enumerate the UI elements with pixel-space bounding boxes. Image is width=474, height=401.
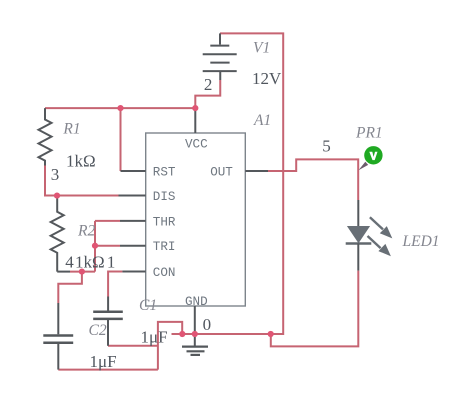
junction dot at VCC — [192, 105, 198, 111]
battery V1 — [203, 33, 237, 80]
svg-text:PR1: PR1 — [355, 125, 383, 142]
node 4 — [65, 253, 74, 272]
svg-text:4: 4 — [65, 253, 74, 272]
svg-text:LED1: LED1 — [402, 233, 440, 250]
svg-text:3: 3 — [51, 165, 60, 184]
value 1kΩ (R2) — [75, 253, 105, 272]
wire: C2 bottom return — [58, 369, 158, 371]
junction dot at RST drop — [117, 105, 123, 111]
pin name RST — [153, 166, 176, 180]
LED LED1 — [346, 200, 372, 271]
wire: RST drop from rail — [120, 108, 122, 171]
pin stub VCC — [194, 108, 196, 133]
capacitor C1 — [93, 297, 123, 346]
value 1μF (C2) — [90, 352, 117, 371]
svg-text:GND: GND — [185, 295, 208, 309]
label PR1 — [355, 125, 383, 142]
node 3 — [51, 165, 60, 184]
node 5 — [322, 136, 331, 155]
svg-text:DIS: DIS — [153, 190, 176, 204]
op-amp/timer U1 (A1 555) box — [146, 133, 246, 306]
wire: LED bottom return to ground — [271, 271, 359, 347]
wire: R1 bottom to DIS pin — [45, 166, 119, 196]
svg-text:R1: R1 — [62, 121, 80, 138]
wire: R2 bottom horizontal — [70, 271, 95, 273]
wire: THR pin horizontal — [95, 220, 120, 222]
wire: battery minus jog to node 2 — [195, 80, 220, 108]
pin name GND — [185, 295, 208, 309]
pin name DIS — [153, 190, 176, 204]
svg-text:OUT: OUT — [210, 166, 233, 180]
capacitor C2 — [43, 303, 73, 370]
svg-text:1μF: 1μF — [90, 352, 117, 371]
pin stub TRI — [120, 245, 146, 247]
junction dot at C2 branch — [79, 269, 85, 275]
node 2 — [204, 75, 213, 94]
wire: battery top to right rail down to ground — [220, 33, 283, 334]
svg-text:V1: V1 — [253, 40, 270, 57]
pin stub CON — [122, 271, 145, 273]
junction dot at C1 jog / ground rail — [179, 331, 185, 337]
label C1 — [139, 297, 157, 314]
pin name TRI — [153, 240, 176, 254]
junction dot at TRI — [92, 243, 98, 249]
pin name OUT — [210, 166, 233, 180]
label C2 — [89, 322, 107, 339]
resistor R2 — [51, 196, 70, 271]
svg-text:1: 1 — [107, 253, 116, 272]
svg-text:2: 2 — [204, 75, 213, 94]
pin stub OUT — [245, 170, 268, 172]
svg-text:C2: C2 — [89, 322, 107, 339]
svg-text:5: 5 — [322, 136, 331, 155]
wire: THR-TRI vertical — [94, 221, 96, 272]
svg-text:TRI: TRI — [153, 240, 176, 254]
svg-text:RST: RST — [153, 166, 176, 180]
wire: CON pin to C1 top — [108, 272, 122, 297]
wire: OUT to node 5 and LED top — [268, 159, 358, 200]
label R1 — [62, 121, 80, 138]
label V1 — [253, 40, 270, 57]
svg-text:1kΩ: 1kΩ — [66, 151, 96, 170]
wire: VCC top rail — [45, 107, 195, 109]
junction dot at battery return — [268, 331, 274, 337]
resistor R1 — [39, 108, 52, 165]
svg-text:12V: 12V — [252, 69, 282, 88]
svg-text:VCC: VCC — [185, 138, 208, 152]
svg-text:R2: R2 — [77, 223, 95, 240]
LED light emission arrows — [368, 217, 393, 256]
wire: branch to C2 top — [58, 272, 82, 303]
svg-text:C1: C1 — [139, 297, 157, 314]
wire: C1 ground jog — [158, 322, 182, 370]
pin stub RST — [121, 170, 146, 172]
svg-text:THR: THR — [153, 215, 176, 229]
probe PR1 — [359, 146, 383, 170]
wire: TRI pin horizontal — [95, 245, 120, 247]
pin stub THR — [120, 220, 146, 222]
node 1 — [107, 253, 116, 272]
junction dot at GND pin — [192, 331, 198, 337]
svg-text:CON: CON — [153, 266, 176, 280]
label A1 — [253, 112, 271, 129]
node 0 — [203, 315, 212, 334]
pin name VCC — [185, 138, 208, 152]
ground symbol — [182, 334, 208, 355]
svg-text:0: 0 — [203, 315, 212, 334]
label R2 — [77, 223, 95, 240]
svg-text:1kΩ: 1kΩ — [75, 253, 105, 272]
junction dot at R1/DIS — [54, 193, 60, 199]
pin stub DIS — [119, 195, 146, 197]
svg-text:1μF: 1μF — [141, 328, 168, 347]
pin stub GND — [194, 306, 196, 334]
wire: ground rail — [172, 333, 271, 335]
svg-text:A1: A1 — [253, 112, 271, 129]
value 1kΩ (R1) — [66, 151, 96, 170]
pin name CON — [153, 266, 176, 280]
value 1μF (C1) — [141, 328, 168, 347]
label LED1 — [402, 233, 440, 250]
pin name THR — [153, 215, 176, 229]
value 12V — [252, 69, 282, 88]
wire: C1 bottom to jog — [108, 345, 158, 347]
